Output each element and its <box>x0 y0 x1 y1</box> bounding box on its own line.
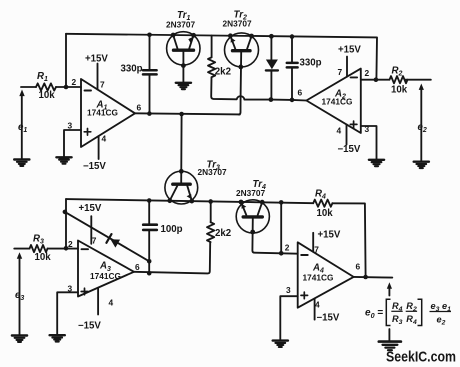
svg-text:2N3707: 2N3707 <box>166 19 195 29</box>
node: Tr1 collector on rail <box>171 33 176 38</box>
minus input A1 <box>85 90 92 92</box>
capacitor C1 330p top lead <box>149 35 151 70</box>
svg-text:1741CG: 1741CG <box>87 107 118 117</box>
pin 7 lead A1 <box>97 64 99 90</box>
svg-text:−15V: −15V <box>317 313 340 324</box>
node: A1 summing junction <box>64 85 69 90</box>
pin 7 lead A4 <box>312 233 314 252</box>
svg-text:10k: 10k <box>35 252 52 263</box>
pin 4 lead A2 <box>346 124 348 144</box>
capacitor C3 100p top lead <box>148 200 150 224</box>
resistor 2k2 (top) zigzag <box>208 57 215 77</box>
svg-text:330p: 330p <box>121 64 143 75</box>
op-amp A1 body <box>81 79 135 147</box>
svg-text:3: 3 <box>68 283 73 293</box>
ground at e0 <box>379 342 401 351</box>
svg-text:2: 2 <box>365 68 370 78</box>
svg-text:+15V: +15V <box>85 54 108 65</box>
capacitor C3 100p plates <box>143 225 157 230</box>
node: Tr4 collector on rail <box>260 200 265 205</box>
node: Tr4 base at circle edge <box>250 230 255 235</box>
svg-text:−15V: −15V <box>338 144 361 155</box>
svg-text:3: 3 <box>286 285 291 295</box>
plus input A4 <box>301 292 308 299</box>
wire: A4 output to e0 <box>354 276 393 279</box>
wire: R3 to A3 inverting input <box>48 248 79 250</box>
minus input A4 <box>301 254 308 256</box>
svg-text:7: 7 <box>314 245 319 255</box>
ground at A3 pin 3 <box>50 335 65 341</box>
minus input A2 <box>351 76 358 78</box>
plus input A1 <box>84 129 91 136</box>
node: D1 on bottom rail <box>269 97 274 102</box>
op-amp A3 body <box>78 241 134 297</box>
svg-text:1741CG: 1741CG <box>90 271 121 281</box>
svg-text:7: 7 <box>100 79 105 89</box>
minus input A3 <box>82 248 89 250</box>
pin 4 lead A3 <box>97 288 99 315</box>
pin 4 lead A4 <box>314 299 316 320</box>
node: Tr3 base tap <box>179 112 184 117</box>
wire: A1 pin 3 to ground <box>64 130 81 157</box>
wire: A2 pin 2 to R2 <box>361 79 390 81</box>
resistor R4 <box>313 200 332 207</box>
svg-text:10k: 10k <box>39 90 56 101</box>
svg-text:2N3707: 2N3707 <box>223 18 252 28</box>
formula bracket left <box>386 299 390 325</box>
svg-text:1741CG: 1741CG <box>322 96 353 106</box>
terminal e0 arrow <box>388 289 390 341</box>
wire: e1 input line to A1 pin 2 <box>21 86 36 88</box>
Tr3 base lead from A1 output bus <box>180 114 182 183</box>
svg-text:330p: 330p <box>300 57 322 68</box>
wire: R4 to A4 output <box>332 203 365 277</box>
svg-text:6: 6 <box>356 262 361 272</box>
diode D1 bottom lead <box>270 72 272 100</box>
resistor 2k2 (top) lead from rail <box>211 36 213 58</box>
wire: junction to A4 pin 2 <box>281 252 298 254</box>
svg-text:−15V: −15V <box>78 321 101 332</box>
Tr4 base lead down <box>252 219 281 254</box>
node: A4 output junction <box>363 275 368 280</box>
svg-text:R1: R1 <box>37 71 48 83</box>
node: C3 at A3 output <box>147 271 152 276</box>
svg-text:+15V: +15V <box>79 203 102 214</box>
svg-text:R4: R4 <box>406 314 417 326</box>
svg-text:2: 2 <box>72 77 77 87</box>
diode D1 cathode bar <box>266 69 278 71</box>
node: Tr2 base at circle edge <box>238 65 243 70</box>
wire: rail drop to A4 pin 2 <box>280 202 282 253</box>
svg-text:2k2: 2k2 <box>215 66 231 77</box>
diode D2 body <box>110 239 120 247</box>
Tr3 emitter lead with arrow <box>187 186 192 201</box>
wire: R2 to e2 output <box>405 79 431 81</box>
svg-text:e3: e3 <box>15 290 24 302</box>
svg-text:R3: R3 <box>392 314 403 326</box>
node: diagonal top tie <box>63 210 68 215</box>
wire: A4 pin 3 to ground <box>280 296 297 340</box>
node: diagonal bottom tie <box>147 259 152 264</box>
node: Tr3 emitter on rail <box>189 199 194 204</box>
node: Tr1 emitter on rail <box>191 33 196 38</box>
terminal e2 arrow <box>420 90 422 162</box>
Tr4 collector lead <box>258 202 263 215</box>
svg-text:4: 4 <box>315 300 320 310</box>
svg-text:1741CG: 1741CG <box>303 273 334 283</box>
node: A3 summing junction <box>64 246 69 251</box>
capacitor C1 330p bottom lead <box>149 76 151 114</box>
resistor R2 <box>390 76 408 83</box>
transistor Tr2 body circle <box>225 33 259 67</box>
resistor 2k2 (bottom) lead to rail <box>210 200 212 222</box>
node: C2 on top rail <box>290 34 295 39</box>
transistor Tr3 body circle <box>165 171 198 204</box>
svg-text:6: 6 <box>137 103 142 113</box>
wire: R1 to A1 inverting input <box>56 86 81 88</box>
ground at e3 <box>12 336 27 342</box>
Tr1 collector lead <box>173 35 177 49</box>
node: C1 on top rail <box>147 33 152 38</box>
wire: A1 output bus <box>135 113 240 114</box>
svg-text:+15V: +15V <box>318 229 341 240</box>
resistor 2k2 (bottom) zigzag <box>207 222 214 242</box>
node: Tr4 emitter on rail <box>239 200 244 205</box>
Tr2 base lead down to A1 output bus <box>239 52 242 114</box>
ground at A2 pin 3 <box>369 160 384 166</box>
ground at A4 pin 3 <box>273 341 288 347</box>
node: A4 summing junction <box>279 251 284 256</box>
node: A2 pin 2 tie <box>374 77 379 82</box>
wire: middle rail to R4 <box>66 199 313 203</box>
wire: A3 feedback riser <box>65 199 67 248</box>
wire: A3 output to 2k2 <box>134 242 210 273</box>
diagonal feedback wire with diode D2 <box>65 212 149 261</box>
svg-text:R3: R3 <box>33 234 44 246</box>
svg-text:SeekIC.com: SeekIC.com <box>386 349 456 366</box>
Tr2 emitter lead with arrow <box>230 36 235 49</box>
diode D1 top lead <box>270 36 272 59</box>
node: 2k2 on middle rail <box>208 199 213 204</box>
node: Tr1 base at circle edge <box>181 63 186 68</box>
node: rail tap for A4 pin 2 <box>279 200 284 205</box>
capacitor C3 100p bottom lead <box>148 231 150 273</box>
capacitor C2 330p bottom lead <box>291 69 293 100</box>
wire: e3 input line to A3 pin 2 <box>14 248 29 250</box>
node: 330p C1 bottom tap <box>147 111 152 116</box>
wire: feedback bus riser from summing junction <box>65 34 67 87</box>
svg-text:2N3707: 2N3707 <box>236 188 265 198</box>
ground at Tr1 base <box>176 83 191 89</box>
svg-text:3: 3 <box>365 124 370 134</box>
svg-text:2: 2 <box>68 239 73 249</box>
Tr3 collector lead <box>170 186 178 201</box>
wire: top feedback rail to A2 pin 2 <box>66 34 377 80</box>
resistor R3 <box>30 245 48 252</box>
diode D2 cathode bar <box>106 234 111 243</box>
svg-text:e0 =: e0 = <box>365 308 383 320</box>
svg-text:e1: e1 <box>18 122 27 134</box>
terminal e1 arrow <box>21 96 23 159</box>
resistor R1 <box>36 83 56 90</box>
Tr2 base bar <box>233 49 251 52</box>
node: Tr2 collector on rail <box>249 34 254 39</box>
diode D1 triangle <box>266 60 278 70</box>
ground at A1 pin 3 <box>56 157 71 163</box>
svg-text:6: 6 <box>135 262 140 272</box>
Tr4 base bar <box>243 215 262 218</box>
op-amp A2 body <box>306 69 360 133</box>
Tr4 emitter lead with arrow <box>241 202 246 215</box>
pin 4 lead A1 <box>98 136 100 159</box>
wire: A3 pin 3 to ground <box>57 292 78 334</box>
svg-text:3: 3 <box>68 120 73 130</box>
capacitor C2 330p plates <box>287 63 298 68</box>
svg-text:10k: 10k <box>317 208 334 219</box>
node: Tr2 emitter on rail <box>228 33 233 38</box>
Tr2 collector lead <box>247 36 251 49</box>
capacitor C1 330p plates <box>143 70 157 74</box>
svg-text:4: 4 <box>102 133 107 143</box>
node: C2 on bottom rail <box>290 98 295 103</box>
plus input A3 <box>81 288 88 295</box>
node: D1 on top rail <box>269 34 274 39</box>
Tr1 base bar <box>174 49 194 52</box>
svg-text:2k2: 2k2 <box>215 228 231 239</box>
svg-text:e2: e2 <box>418 122 427 134</box>
ground at e2 <box>414 162 429 168</box>
node: Tr3 collector on rail <box>167 198 172 203</box>
Tr1 emitter lead with arrow <box>189 35 193 48</box>
svg-text:4: 4 <box>109 297 114 307</box>
svg-text:2N3707: 2N3707 <box>198 167 227 177</box>
Tr3 base bar <box>173 182 190 185</box>
formula bracket right <box>418 299 422 325</box>
Tr1 base lead down <box>182 52 184 83</box>
svg-text:e2: e2 <box>437 314 446 326</box>
capacitor C2 330p top lead <box>291 37 293 63</box>
wire: A2 pin 3 to ground <box>361 126 377 159</box>
terminal e3 arrow <box>19 259 21 335</box>
pin 7 lead A3 <box>90 216 92 244</box>
svg-text:2: 2 <box>285 242 290 252</box>
wire: 2k2 bottom to diode rail with hop <box>211 77 306 100</box>
svg-text:4: 4 <box>337 125 342 135</box>
svg-text:100p: 100p <box>161 224 183 235</box>
node: C3 on middle rail <box>147 198 152 203</box>
op-amp A4 body <box>298 242 354 307</box>
transistor Tr1 body circle <box>167 32 200 65</box>
plus input A2 <box>350 121 357 128</box>
svg-text:6: 6 <box>298 87 303 97</box>
svg-text:10k: 10k <box>391 85 408 96</box>
pin 7 lead A2 <box>346 57 348 77</box>
svg-text:7: 7 <box>92 235 97 245</box>
node: Tr3 base at circle edge <box>179 169 184 174</box>
svg-text:R4: R4 <box>315 189 326 201</box>
svg-text:−15V: −15V <box>83 161 106 172</box>
transistor Tr4 body circle <box>236 200 269 233</box>
svg-text:+15V: +15V <box>338 45 361 56</box>
svg-text:R2: R2 <box>392 66 403 78</box>
ground at e1 <box>14 160 29 166</box>
svg-text:7: 7 <box>338 67 343 77</box>
